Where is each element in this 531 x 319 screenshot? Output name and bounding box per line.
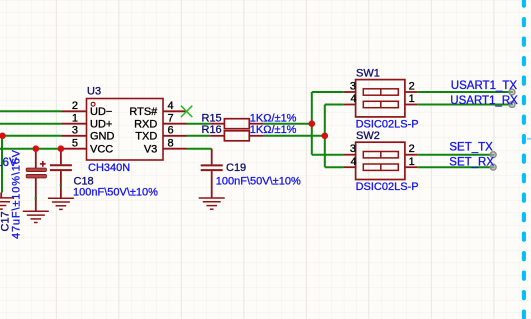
resistor R15	[210, 119, 263, 129]
svg-text:100nF\50V\±10%: 100nF\50V\±10%	[73, 186, 158, 198]
svg-text:2: 2	[409, 143, 415, 155]
svg-text:3: 3	[350, 143, 356, 155]
svg-text:2: 2	[72, 100, 78, 112]
svg-text:VCC: VCC	[90, 144, 113, 156]
wire net USART1_RX	[417, 104, 513, 106]
ground lead at left edge	[0, 193, 2, 198]
svg-text:1: 1	[409, 156, 415, 168]
svg-text:SET_RX: SET_RX	[449, 157, 494, 169]
svg-text:100nF\50V\±10%: 100nF\50V\±10%	[216, 175, 301, 187]
svg-text:GND: GND	[90, 131, 115, 143]
svg-text:4: 4	[350, 93, 356, 105]
no-connect X on pin 4 RTS#	[181, 106, 192, 117]
capacitor C18 100nF	[50, 149, 72, 199]
svg-text:5: 5	[72, 137, 78, 149]
junction RXD-vert	[309, 120, 316, 127]
resistor R16	[210, 131, 263, 141]
wire TXD to R16	[187, 135, 211, 137]
svg-text:USART1_RX: USART1_RX	[450, 95, 518, 107]
svg-text:RXD: RXD	[134, 119, 157, 131]
svg-text:8: 8	[168, 137, 174, 149]
wire net SET_RX	[417, 166, 494, 168]
svg-text:1: 1	[409, 93, 415, 105]
wire to SW1 pin 3	[312, 91, 343, 93]
svg-text:16V: 16V	[0, 155, 17, 169]
no-connect marker SET_RX	[490, 164, 496, 170]
svg-text:CH340N: CH340N	[88, 162, 130, 174]
wire stub artifact on C18 lead	[60, 184, 62, 186]
svg-text:C19: C19	[226, 162, 246, 174]
ground C17	[23, 211, 49, 222]
wire vertical net TXD (to SW1 pin4 / SW2 pin4)	[324, 105, 326, 168]
wire UD+ net (pin 1)	[0, 123, 62, 125]
svg-text:3: 3	[72, 125, 78, 137]
wire GND net vertical drop at left edge	[1, 136, 3, 193]
svg-text:SET_TX: SET_TX	[449, 142, 493, 154]
capacitor C19 100nF	[201, 149, 223, 198]
wire vertical net RXD (to SW1 pin3 / SW2 pin3)	[311, 92, 313, 155]
ground C19	[199, 198, 225, 209]
IC U3 CH340N	[62, 99, 187, 161]
wire GND net (pin 3)	[0, 135, 62, 137]
wire R15 to junction	[263, 123, 311, 125]
svg-text:V3: V3	[144, 144, 157, 156]
svg-text:7: 7	[168, 112, 174, 124]
svg-text:4: 4	[350, 156, 356, 168]
wire UD- net (pin 2)	[0, 110, 62, 112]
capacitor C17 47uF polarized	[26, 149, 46, 212]
wire stub artifact on C17 lead	[35, 197, 37, 199]
svg-text:UD−: UD−	[90, 106, 112, 118]
wire V3 to C19	[187, 148, 212, 150]
svg-text:USART1_TX: USART1_TX	[451, 80, 518, 92]
svg-text:R15: R15	[202, 113, 222, 125]
svg-text:3: 3	[350, 81, 356, 93]
svg-text:1: 1	[72, 112, 78, 124]
wire to SW2 pin 3	[312, 154, 343, 156]
switch SW1 DSIC02LS-P	[343, 80, 417, 117]
wire to SW1 pin 4	[325, 104, 343, 106]
wire net USART1_TX	[417, 91, 513, 93]
wire R16 to junction	[263, 135, 324, 137]
svg-text:DSIC02LS-P: DSIC02LS-P	[356, 181, 419, 193]
ground left-edge	[0, 198, 14, 209]
svg-text:DSIC02LS-P: DSIC02LS-P	[356, 118, 419, 130]
svg-text:6: 6	[168, 125, 174, 137]
svg-text:SW1: SW1	[356, 68, 380, 80]
svg-text:1KΩ/±1%: 1KΩ/±1%	[250, 124, 297, 136]
svg-text:RTS#: RTS#	[129, 106, 158, 118]
no-connect marker SET_TX	[490, 152, 496, 158]
svg-text:4: 4	[168, 100, 174, 112]
svg-text:U3: U3	[87, 86, 101, 98]
wire RXD to R15	[187, 123, 211, 125]
no-connect marker USART1_TX	[509, 89, 515, 95]
svg-text:SW2: SW2	[356, 130, 380, 142]
svg-text:2: 2	[409, 81, 415, 93]
svg-text:TXD: TXD	[135, 131, 157, 143]
no-connect marker USART1_RX	[509, 102, 515, 108]
junction VCC-C17	[33, 145, 40, 152]
svg-text:UD+: UD+	[90, 119, 112, 131]
switch SW2 DSIC02LS-P	[343, 142, 417, 179]
junction VCC-C18	[58, 145, 65, 152]
wire net SET_TX	[417, 154, 494, 156]
wire to SW2 pin 4	[325, 166, 343, 168]
junction TXD-vert	[322, 133, 329, 140]
svg-text:R16: R16	[202, 124, 222, 136]
ground C18	[48, 198, 74, 209]
junction GND net at left edge	[0, 133, 6, 140]
wire VCC net (pin 5)	[0, 148, 62, 150]
